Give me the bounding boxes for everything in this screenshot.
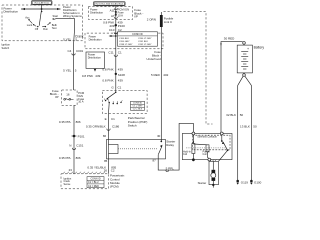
svg-text:C240 LT GRY: C240 LT GRY: [138, 38, 152, 40]
svg-text:Coil: Coil: [183, 153, 188, 156]
fuse block IP upper box: [88, 7, 132, 20]
ground G119: [236, 180, 239, 183]
svg-text:13 BLK: 13 BLK: [240, 124, 250, 128]
svg-text:Acc: Acc: [25, 16, 30, 20]
svg-text:87: 87: [152, 159, 156, 163]
PCM box: [61, 172, 109, 189]
PNP contacts: [105, 100, 106, 101]
svg-text:Sense: Sense: [64, 183, 71, 186]
svg-text:C10: C10: [109, 28, 115, 32]
svg-text:5 PPL: 5 PPL: [166, 167, 175, 171]
svg-text:0.8 PNK: 0.8 PNK: [102, 79, 113, 83]
wire ignition feed bus: [21, 8, 61, 10]
svg-text:Lock: Lock: [27, 23, 33, 27]
wire crank output: [54, 19, 75, 90]
svg-text:C248 LT GRY: C248 LT GRY: [119, 44, 133, 46]
wire ORN/BLK to relay: [108, 114, 110, 140]
svg-text:C241 BLK: C241 BLK: [138, 41, 149, 43]
svg-text:C1: C1: [118, 51, 122, 55]
fuse block underhood box: [85, 33, 163, 49]
battery: [237, 42, 264, 77]
mech link dotted: [186, 147, 227, 149]
pull-in coil: [193, 143, 207, 146]
svg-text:Switch: Switch: [128, 124, 137, 128]
ignition switch box: [2, 5, 83, 41]
switch contact Start: [53, 18, 54, 19]
battery ground cables: [238, 76, 244, 85]
svg-text:Start: Start: [53, 14, 59, 18]
wire YEL/BLK 805 to PCM: [108, 159, 110, 174]
splice S108: [115, 73, 117, 75]
ground G100: [250, 180, 253, 183]
svg-text:CONN ID: CONN ID: [132, 33, 143, 36]
ignition switch wiper: [39, 9, 41, 26]
svg-text:Distribution: Distribution: [89, 37, 103, 41]
svg-text:Coil: Coil: [203, 153, 208, 156]
svg-text:32 BLK: 32 BLK: [226, 113, 236, 117]
svg-text:Test: Test: [52, 26, 57, 30]
svg-text:86: 86: [103, 134, 107, 138]
svg-text:0.35 PPL: 0.35 PPL: [59, 120, 72, 124]
grommet P100: [115, 24, 117, 26]
svg-text:N: N: [69, 143, 71, 147]
starter motor: [198, 159, 219, 187]
PCM conn table: [87, 177, 104, 188]
svg-text:G119: G119: [241, 180, 248, 184]
solenoid moving contact: [221, 135, 223, 141]
svg-text:50: 50: [240, 113, 244, 117]
svg-text:Run: Run: [43, 27, 48, 31]
label Fuse Block Underhood: [146, 50, 161, 61]
svg-text:0.35 ORN/BLK: 0.35 ORN/BLK: [86, 124, 106, 128]
svg-text:C2 = RED: C2 = RED: [88, 185, 99, 188]
svg-text:Hot at All Times: Hot at All Times: [35, 2, 49, 5]
wire 5 RED 402: [160, 27, 162, 140]
fusible link C: [160, 15, 163, 27]
svg-text:439: 439: [95, 74, 100, 78]
svg-text:Starter: Starter: [198, 181, 207, 185]
svg-text:2 ORN: 2 ORN: [147, 17, 156, 21]
wire PPL 806: [73, 105, 75, 174]
svg-text:0.8 PNK: 0.8 PNK: [82, 74, 93, 78]
svg-text:439: 439: [118, 68, 123, 72]
relay coil: [108, 140, 110, 145]
svg-text:50: 50: [253, 124, 257, 128]
hold-in coil: [192, 135, 194, 144]
starter solenoid box: [182, 134, 232, 160]
svg-text:Solenoid Contacts: Solenoid Contacts: [197, 136, 217, 139]
terminal M: [208, 158, 211, 161]
svg-text:I/P: I/P: [55, 95, 59, 99]
svg-text:CONN ID: CONN ID: [133, 103, 143, 105]
svg-text:439: 439: [118, 79, 123, 83]
svg-text:Relay: Relay: [166, 143, 174, 147]
PNP wiper: [115, 90, 117, 92]
wire through fuse: [115, 6, 117, 20]
wire 5 PPL relay to solenoid S: [158, 123, 193, 170]
svg-text:C4: C4: [67, 49, 71, 53]
svg-text:Battery: Battery: [254, 46, 265, 50]
svg-text:Link C: Link C: [164, 20, 172, 24]
svg-text:10 A: 10 A: [78, 100, 84, 104]
terminal S: [192, 132, 195, 135]
svg-text:I/P: I/P: [134, 15, 138, 19]
svg-text:C1 = BLU: C1 = BLU: [88, 181, 99, 184]
svg-text:23: 23: [69, 168, 73, 172]
switch contact Acc: [28, 19, 29, 20]
tag Hot In Run Bulb Test And Start: [94, 2, 126, 6]
PNP output to E: [108, 103, 111, 114]
svg-text:806: 806: [76, 156, 81, 160]
svg-text:806: 806: [76, 120, 81, 124]
node Power Distribution Schematics (right ref): [63, 5, 82, 18]
svg-text:Ignition: Ignition: [2, 43, 11, 47]
switch contact Run: [45, 26, 46, 27]
PNP switch box: [102, 90, 147, 113]
svg-text:5 RED: 5 RED: [151, 73, 161, 77]
PNP conn table: [131, 101, 145, 110]
svg-text:Distribution: Distribution: [88, 56, 102, 60]
svg-text:0.8 PNK: 0.8 PNK: [102, 68, 113, 72]
svg-text:C2: C2: [111, 168, 115, 172]
svg-text:C100 BLK: C100 BLK: [119, 38, 130, 40]
wire from tag to switch feed: [41, 5, 43, 9]
svg-text:S108: S108: [118, 73, 125, 77]
svg-text:+: +: [247, 47, 249, 51]
switch contact Lock: [33, 24, 34, 25]
svg-text:P101: P101: [78, 134, 85, 138]
switch contact Off: [37, 26, 38, 27]
svg-text:G100: G100: [254, 180, 262, 184]
svg-text:CONN ID: CONN ID: [90, 178, 100, 181]
dashed harness boundary right: [164, 12, 213, 124]
svg-text:C1 = GRY: C1 = GRY: [133, 106, 144, 108]
svg-text:Distribution: Distribution: [4, 9, 19, 13]
svg-text:30: 30: [157, 134, 161, 138]
svg-text:10 A: 10 A: [118, 13, 124, 17]
svg-text:E: E: [105, 117, 107, 121]
svg-text:5 YEL: 5 YEL: [63, 37, 71, 41]
svg-text:30 RED: 30 RED: [224, 37, 235, 41]
svg-text:C242 LT GRY: C242 LT GRY: [138, 44, 152, 46]
relay contacts: [160, 140, 162, 142]
svg-text:Switch: Switch: [2, 46, 10, 50]
switch contact Bulb Test: [49, 22, 50, 23]
power distribution solid box: [86, 52, 105, 68]
svg-text:5 YEL: 5 YEL: [63, 68, 71, 72]
svg-text:85: 85: [104, 159, 108, 163]
svg-text:Off: Off: [35, 27, 39, 31]
wire PNK 439 upper: [115, 19, 117, 90]
tag Hot at All Times: [32, 1, 53, 5]
svg-text:402: 402: [163, 73, 168, 77]
starter relay box: [107, 140, 166, 159]
fuse block IP lower box: [62, 90, 77, 105]
svg-text:C151: C151: [76, 143, 84, 147]
svg-text:26: 26: [104, 168, 108, 172]
splice P101: [73, 135, 76, 138]
svg-text:0.35 PPL: 0.35 PPL: [59, 156, 72, 160]
solenoid contacts dashed box: [192, 135, 230, 150]
svg-text:C1: C1: [118, 86, 122, 90]
label Park/Neutral Position Switch: [128, 116, 148, 127]
wire 30 RED battery feed: [221, 42, 243, 134]
svg-text:(PCM): (PCM): [110, 185, 119, 189]
svg-text:C186: C186: [112, 124, 120, 128]
svg-text:Distribution: Distribution: [90, 10, 104, 14]
svg-text:C11: C11: [108, 51, 114, 55]
svg-text:Underhood: Underhood: [146, 57, 161, 61]
svg-text:16: 16: [66, 93, 70, 97]
terminal B: [220, 132, 223, 135]
conn id table: [118, 32, 158, 46]
svg-text:C2 = BLK: C2 = BLK: [133, 109, 143, 111]
svg-text:Hot In Run, Bulb Test And Star: Hot In Run, Bulb Test And Start: [95, 3, 123, 6]
svg-text:C001: C001: [76, 49, 84, 53]
label Powertrain Control Module: [110, 174, 125, 189]
label Fuse Block IP: [134, 8, 143, 18]
svg-text:Wiring Systems: Wiring Systems: [63, 14, 82, 18]
svg-text:C200 GRY: C200 GRY: [119, 41, 130, 43]
svg-text:C1: C1: [111, 117, 115, 121]
